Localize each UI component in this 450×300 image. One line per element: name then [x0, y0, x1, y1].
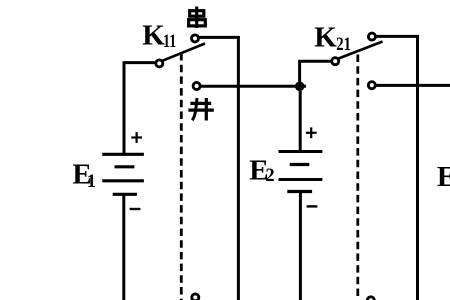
svg-text:E: E [437, 161, 450, 193]
wire E1 positive lead [124, 63, 155, 155]
wire E2 negative lead [299, 192, 302, 300]
contact of K22 at bottom [367, 297, 374, 300]
svg-text:11: 11 [163, 32, 176, 52]
wire K21 series contact to right bus [376, 36, 417, 300]
dashed link line of K2 [356, 55, 359, 300]
polarity - of E2 [307, 205, 318, 207]
label 并 (parallel) [188, 98, 213, 121]
polarity - of E1 [130, 208, 141, 210]
switch K11 series contact [192, 35, 199, 42]
contact of K12 at bottom [192, 294, 199, 300]
svg-text:21: 21 [336, 35, 351, 55]
svg-text:K: K [142, 19, 165, 51]
junction node [295, 82, 305, 92]
wire series: K11 series contact to bottom [200, 37, 239, 300]
switch K11 parallel contact [193, 83, 200, 90]
switch K21 blade [338, 42, 382, 59]
svg-text:K: K [314, 22, 337, 54]
wire parallel: K11 parallel contact to junction [201, 85, 306, 88]
switch K21 common contact [332, 58, 339, 65]
switch K11 blade [162, 44, 205, 61]
wire E1 negative lead [122, 194, 125, 300]
battery E1 [102, 154, 144, 194]
switch K21 parallel contact [368, 82, 375, 89]
svg-text:2: 2 [265, 166, 274, 186]
dashed link line of K1 [180, 53, 183, 300]
svg-text:1: 1 [87, 172, 96, 192]
wire K21 parallel contact to right edge [376, 84, 450, 87]
polarity + of E1 [131, 132, 142, 143]
battery E2 [279, 152, 323, 192]
wire junction to K21 common [300, 61, 331, 86]
polarity + of E2 [306, 127, 317, 138]
switch K11 common contact [156, 60, 163, 67]
wire E2 positive lead [299, 86, 302, 151]
label 串 (series) [189, 7, 206, 29]
switch K21 series contact [368, 33, 375, 40]
